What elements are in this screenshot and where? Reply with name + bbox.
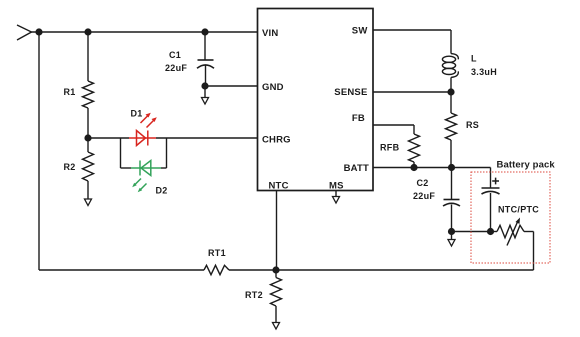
svg-text:NTC: NTC [269,181,289,192]
svg-text:RT2: RT2 [245,290,263,300]
svg-text:BATT: BATT [344,163,369,174]
svg-text:3.3uH: 3.3uH [471,67,497,77]
svg-text:NTC/PTC: NTC/PTC [498,205,539,215]
svg-text:RT1: RT1 [208,248,226,258]
svg-text:22uF: 22uF [165,63,187,73]
svg-text:D1: D1 [131,109,143,119]
svg-text:D2: D2 [156,186,168,196]
svg-text:FB: FB [352,113,365,124]
svg-text:C2: C2 [417,178,429,188]
svg-text:Battery pack: Battery pack [497,160,556,171]
svg-text:RS: RS [466,120,479,130]
svg-text:SW: SW [352,26,368,37]
svg-text:22uF: 22uF [413,191,435,201]
svg-text:CHRG: CHRG [262,134,291,145]
svg-text:MS: MS [329,181,344,192]
svg-text:R2: R2 [64,162,76,172]
svg-text:C1: C1 [169,50,181,60]
svg-text:GND: GND [262,82,284,93]
svg-text:R1: R1 [64,87,76,97]
svg-text:L: L [471,54,477,64]
svg-text:SENSE: SENSE [334,87,367,98]
svg-text:RFB: RFB [380,143,400,153]
svg-text:VIN: VIN [262,28,278,39]
